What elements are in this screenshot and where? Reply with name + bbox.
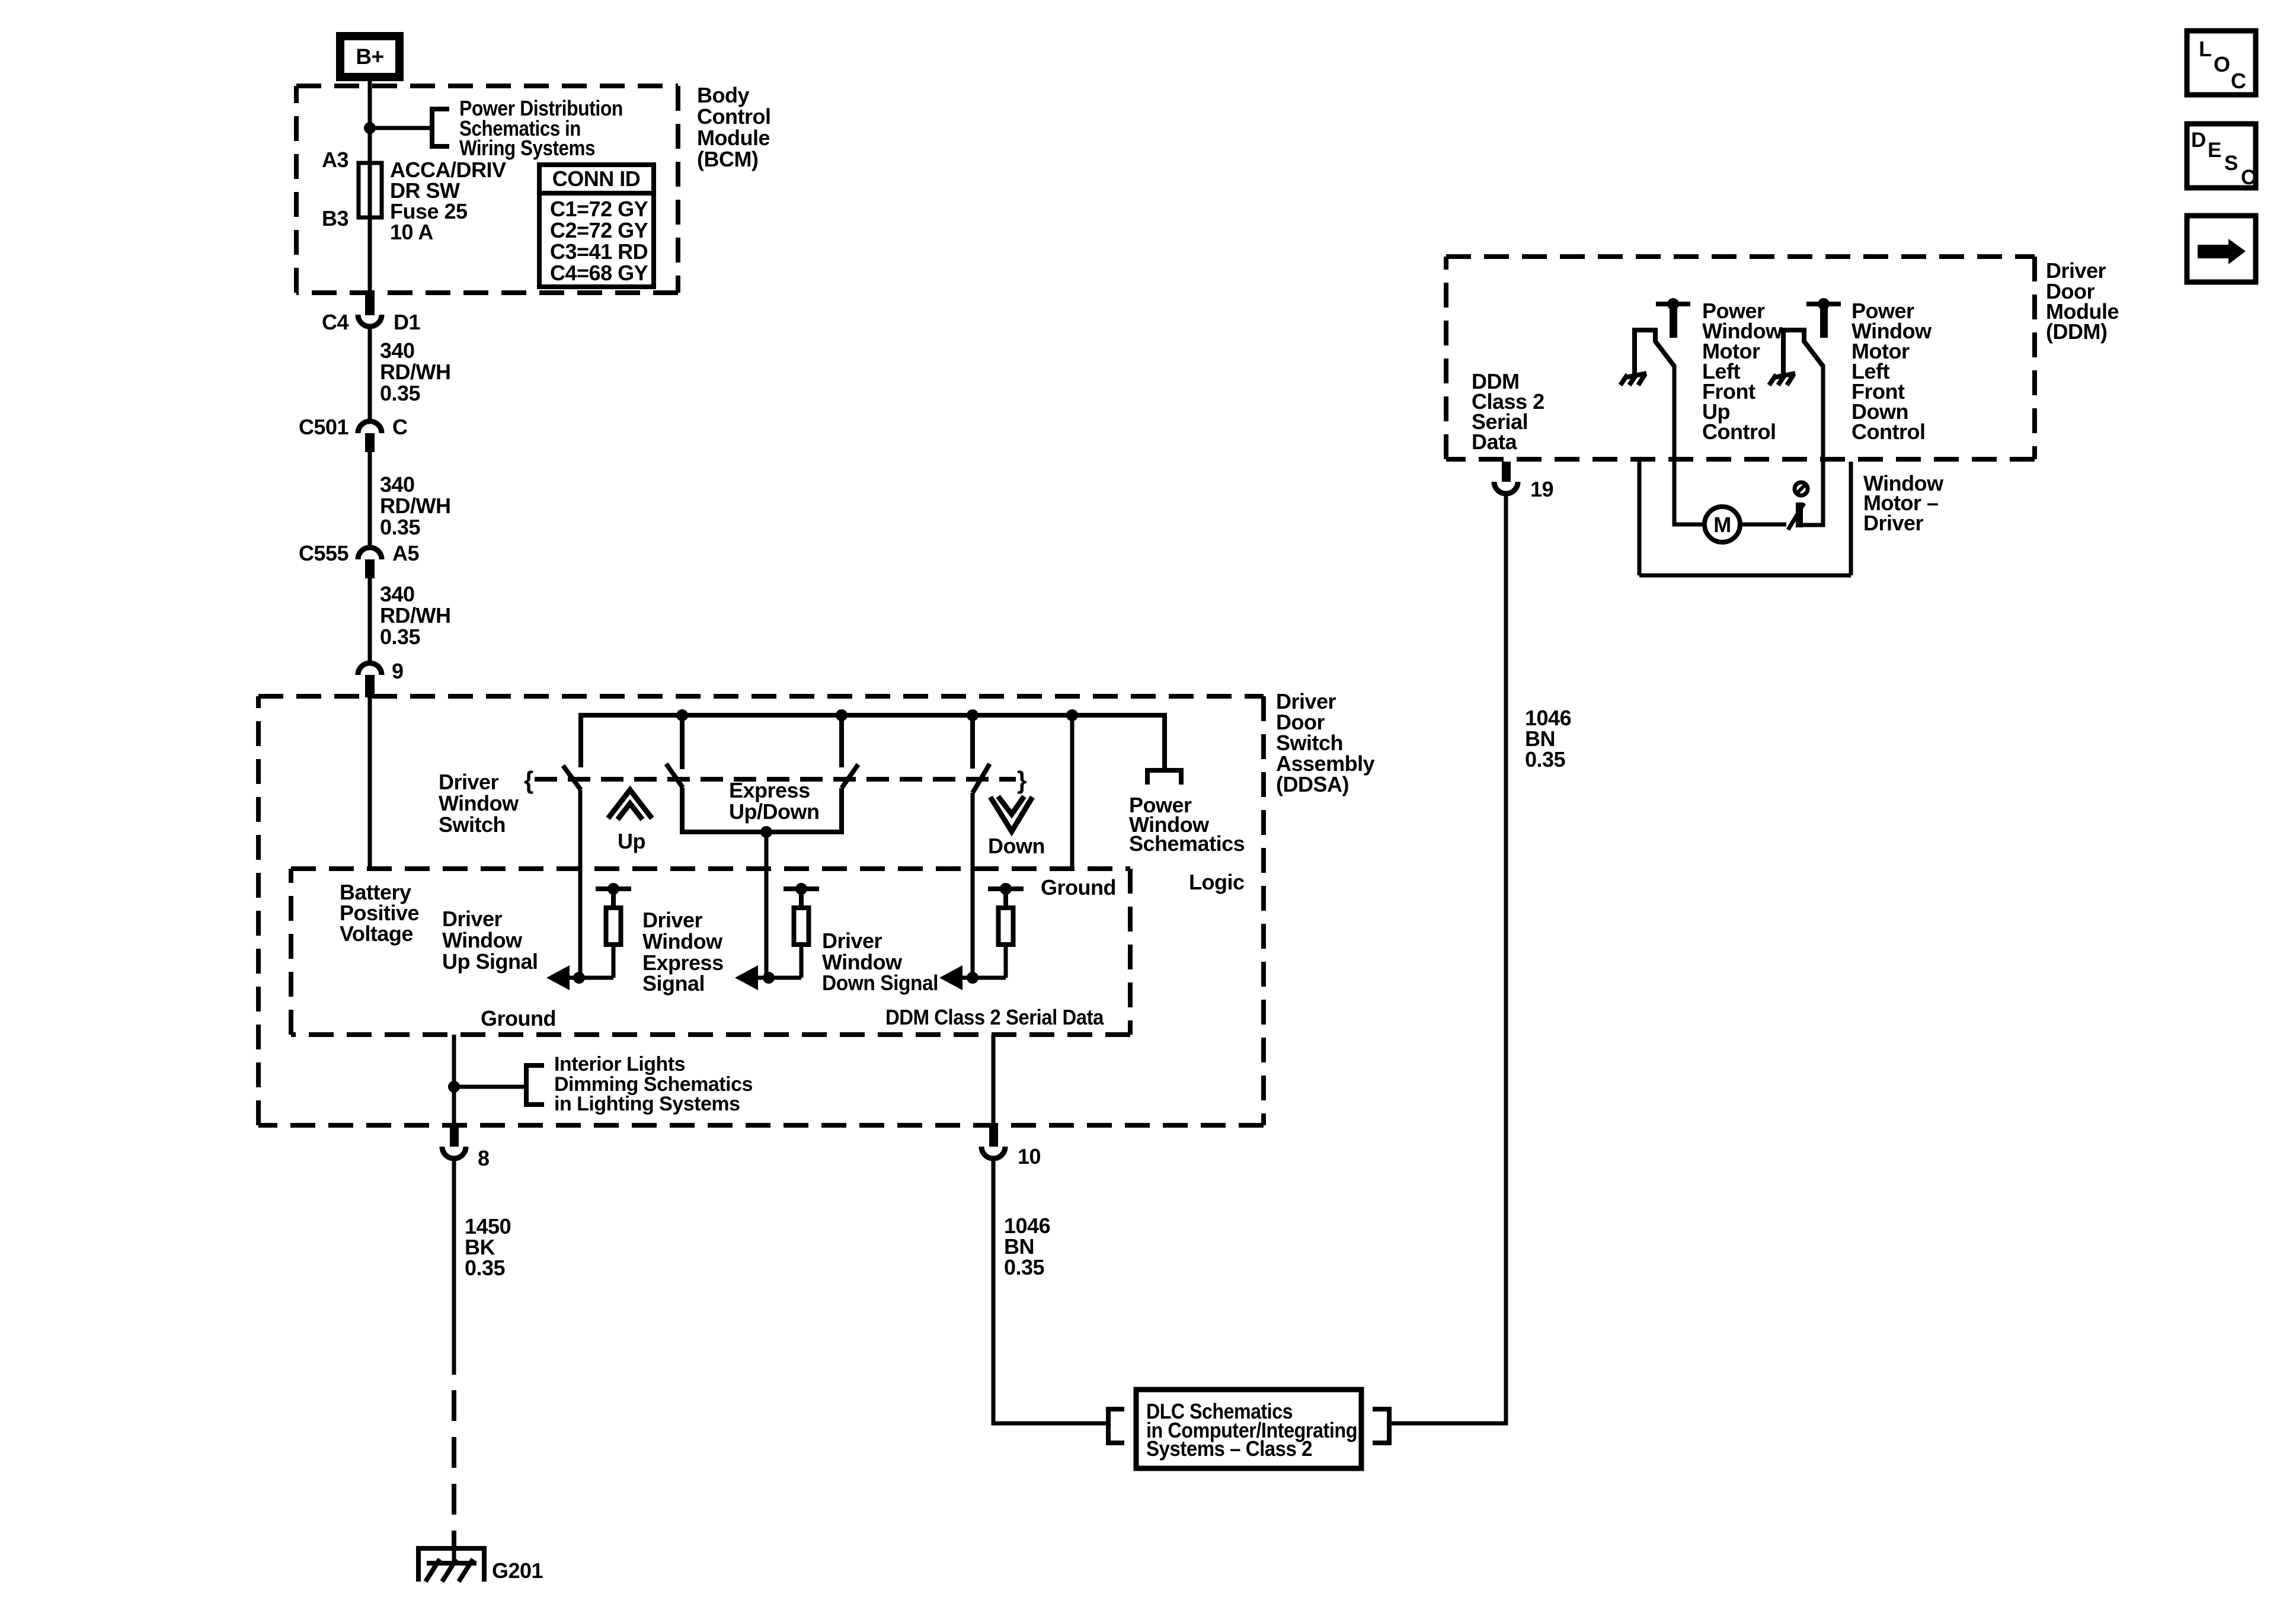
label: Power Distribution Schematics in Wiring Systems	[459, 96, 623, 160]
LOC icon box	[2187, 31, 2256, 95]
wire 340 RD/WH segment 2	[368, 452, 372, 545]
svg-text:G201: G201	[492, 1558, 543, 1583]
svg-text:Control: Control	[1702, 420, 1776, 444]
svg-text:(DDSA): (DDSA)	[1276, 772, 1349, 796]
node bus junction serial data	[1066, 709, 1078, 721]
arrowhead down signal	[939, 965, 962, 990]
wire branch to interior lights reference	[454, 1085, 525, 1089]
svg-text:Window: Window	[442, 928, 523, 952]
svg-text:0.35: 0.35	[380, 625, 421, 649]
connector pin 19 (DDM)	[1494, 462, 1553, 501]
mechanical linkage dashed line	[535, 777, 1016, 782]
connector pin 8 (DDSA ground output)	[442, 1126, 490, 1170]
node express signal junction	[763, 972, 775, 984]
connector C555 pin A5	[299, 541, 420, 578]
svg-text:Up: Up	[618, 829, 645, 853]
svg-text:C: C	[2231, 69, 2246, 93]
svg-text:C4=68 GY: C4=68 GY	[550, 261, 648, 285]
wire from R2 to express signal line	[800, 947, 804, 978]
arrowhead up signal	[546, 965, 570, 990]
wire label 340 RD/WH 0.35	[380, 338, 450, 405]
svg-text:Interior Lights: Interior Lights	[554, 1053, 685, 1076]
svg-text:0.35: 0.35	[1525, 747, 1566, 772]
svg-text:Up Signal: Up Signal	[442, 949, 538, 974]
svg-text:Up/Down: Up/Down	[729, 799, 819, 824]
svg-text:E: E	[2208, 139, 2221, 162]
svg-text:Signal: Signal	[642, 971, 705, 996]
svg-text:8: 8	[478, 1146, 490, 1170]
switch blade driver window up	[563, 766, 581, 790]
wire 1046 BN from pin 10 down and to DLC bracket	[993, 1160, 1106, 1423]
svg-text:Down: Down	[988, 834, 1045, 858]
up chevron symbol	[608, 790, 652, 820]
label: Express Up/Down	[729, 778, 819, 824]
svg-text:0.35: 0.35	[380, 381, 421, 405]
label: Interior Lights Dimming Schematics in Lighting Systems	[554, 1053, 753, 1115]
svg-text:0.35: 0.35	[465, 1256, 506, 1280]
wire express left drop	[680, 715, 685, 769]
connector C501 pin C	[299, 415, 408, 452]
svg-text:C2=72 GY: C2=72 GY	[550, 218, 648, 242]
svg-text:Logic: Logic	[1189, 870, 1245, 894]
wire from B+ down to fuse A3	[368, 81, 372, 164]
node up signal junction	[573, 972, 585, 984]
svg-text:M: M	[1713, 513, 1731, 537]
B+ battery positive terminal box	[340, 36, 399, 77]
down control contact crossbar	[1806, 298, 1841, 338]
motor loop bottom wire	[1639, 574, 1851, 578]
node junction on B+ feed	[364, 122, 376, 134]
supply bus wire across switch tops	[581, 715, 1165, 770]
svg-text:Ground: Ground	[481, 1006, 556, 1030]
fuse value label	[390, 158, 506, 244]
svg-text:Driver: Driver	[1863, 511, 1924, 535]
supply crossbar T for up signal resistor	[596, 883, 631, 907]
svg-text:{: {	[524, 766, 533, 794]
svg-text:A3: A3	[322, 148, 348, 172]
connector pin 9 into DDSA	[358, 659, 404, 697]
svg-text:0.35: 0.35	[1004, 1255, 1045, 1279]
svg-text:Voltage: Voltage	[340, 921, 413, 946]
svg-text:B+: B+	[356, 44, 383, 69]
svg-text:D: D	[2191, 129, 2206, 152]
wire from fuse B3 to BCM edge	[368, 217, 372, 295]
switch blade driver window down	[973, 764, 990, 793]
label: Driver Door Module (DDM)	[2046, 258, 2119, 344]
svg-text:Ground: Ground	[1041, 875, 1116, 900]
DDSA inner interface dashed box	[291, 869, 1130, 1035]
wire branch to power distribution reference	[370, 126, 432, 130]
svg-text:C: C	[392, 415, 408, 439]
svg-text:Wiring Systems: Wiring Systems	[459, 136, 595, 160]
DDSA module dashed box (Driver Door Switch Assembly)	[258, 696, 1264, 1125]
svg-text:9: 9	[392, 659, 404, 683]
node bus junction express left	[676, 709, 688, 721]
ground symbol (down relay NC)	[1769, 373, 1795, 385]
label: Battery Positive Voltage	[340, 880, 419, 946]
svg-text:10 A: 10 A	[390, 220, 433, 244]
svg-text:DDM Class 2 Serial Data: DDM Class 2 Serial Data	[885, 1005, 1104, 1029]
reference bracket (interior lights dimming)	[526, 1065, 544, 1105]
wire motor to thermal switch	[1742, 523, 1786, 527]
svg-text:Schematics: Schematics	[1129, 831, 1245, 856]
ground G201 symbol	[418, 1548, 484, 1582]
svg-text:C555: C555	[299, 541, 349, 565]
connector pin 10 (DDSA serial data output)	[981, 1126, 1041, 1169]
motor M (window motor driver)	[1705, 507, 1740, 542]
svg-text:Window: Window	[642, 929, 723, 953]
svg-text:340: 340	[380, 582, 415, 606]
wire from R3 to down signal line	[1004, 947, 1008, 978]
wire from R1 to up signal line	[612, 947, 616, 978]
down relay blade and elbow	[1783, 330, 1823, 375]
wire 1450 BK dashed continuation	[452, 1390, 456, 1549]
svg-text:Driver: Driver	[442, 907, 503, 931]
svg-text:Driver: Driver	[642, 908, 703, 932]
motor loop right leg	[1849, 462, 1853, 575]
svg-text:Window: Window	[439, 791, 519, 815]
wire 340 RD/WH segment 3	[368, 578, 372, 661]
ground symbol (up relay NC)	[1620, 373, 1646, 385]
label: Driver Window Down Signal	[822, 929, 938, 995]
svg-text:RD/WH: RD/WH	[380, 603, 450, 628]
svg-text:Down Signal: Down Signal	[822, 971, 938, 995]
svg-text:Module: Module	[697, 126, 770, 150]
motor loop left leg	[1638, 462, 1642, 575]
svg-text:C4: C4	[322, 310, 348, 334]
wire below up switch	[578, 790, 583, 978]
arrowhead express signal	[735, 965, 758, 990]
ground wire from inner box to DDSA edge	[452, 1035, 456, 1126]
svg-text:Control: Control	[697, 104, 770, 129]
svg-text:340: 340	[380, 472, 415, 497]
label: Driver Window Up Signal	[442, 907, 538, 974]
up control contact crossbar	[1656, 298, 1690, 338]
label: Driver Door Switch Assembly (DDSA)	[1276, 689, 1375, 796]
wire 1450 BK solid segment	[452, 1160, 456, 1375]
svg-text:C: C	[2241, 166, 2256, 189]
DDM module dashed box (Driver Door Module)	[1446, 257, 2035, 459]
svg-text:10: 10	[1018, 1144, 1041, 1169]
label: DDM Class 2 Serial Data	[1472, 369, 1544, 454]
resistor R2 (express signal pull)	[794, 908, 809, 945]
node bus junction express right	[836, 709, 848, 721]
fuse 25 (ACCA/DRIV DR SW, 10 A)	[359, 163, 382, 217]
wire below down switch	[971, 793, 975, 978]
svg-text:RD/WH: RD/WH	[380, 360, 450, 384]
thermal protector symbol (circle slash)	[1795, 482, 1808, 495]
express switch frame wires	[682, 788, 842, 832]
svg-text:Express: Express	[729, 778, 810, 802]
label: Driver Window Express Signal	[642, 908, 724, 996]
reference bracket left of DLC box	[1108, 1409, 1124, 1443]
svg-text:19: 19	[1530, 477, 1553, 501]
reference bracket (power distribution schematics)	[432, 109, 449, 146]
wire 340 RD/WH segment 1	[368, 328, 372, 419]
svg-text:S: S	[2224, 152, 2238, 175]
resistor R1 (up signal pull)	[606, 908, 621, 945]
express signal line with arrow	[756, 976, 801, 980]
svg-text:Data: Data	[1472, 430, 1518, 454]
DESC icon box	[2187, 124, 2256, 189]
svg-text:Systems – Class 2: Systems – Class 2	[1146, 1436, 1312, 1461]
wire label 340 RD/WH 0.35	[380, 582, 450, 649]
svg-text:340: 340	[380, 338, 415, 363]
thermal protector switch blade	[1788, 502, 1804, 530]
svg-text:Driver: Driver	[439, 770, 499, 794]
svg-text:O: O	[2214, 52, 2230, 76]
svg-text:in Lighting Systems: in Lighting Systems	[554, 1093, 740, 1115]
wire down switch drop	[970, 715, 975, 769]
supply crossbar T for down signal resistor	[988, 883, 1024, 907]
power window logic bracket	[1147, 770, 1181, 785]
wire serial data drop to logic	[1070, 715, 1075, 869]
svg-text:A5: A5	[392, 541, 419, 565]
BCM module dashed box (Body Control Module)	[296, 86, 678, 293]
label: Window Motor - Driver	[1863, 471, 1944, 535]
svg-text:0.35: 0.35	[380, 515, 421, 539]
svg-text:C501: C501	[299, 415, 349, 439]
connector C4 pin D1 (BCM harness connector)	[322, 294, 421, 334]
label: Driver Window Switch	[439, 770, 519, 837]
wire motor left feed	[1674, 364, 1702, 524]
svg-text:}: }	[1017, 766, 1027, 794]
up relay blade and elbow	[1635, 330, 1674, 375]
svg-text:Switch: Switch	[439, 812, 506, 837]
svg-text:Driver: Driver	[822, 929, 882, 953]
supply crossbar T for express signal resistor	[784, 883, 819, 907]
svg-text:C1=72 GY: C1=72 GY	[550, 197, 648, 221]
DLC Schematics reference box	[1136, 1390, 1361, 1468]
svg-text:RD/WH: RD/WH	[380, 494, 450, 518]
forward arrow icon box	[2187, 216, 2256, 282]
svg-text:(DDM): (DDM)	[2046, 319, 2107, 344]
svg-text:L: L	[2199, 37, 2212, 61]
node express output junction	[760, 826, 772, 838]
up signal line with arrow	[568, 976, 613, 980]
wire express right drop	[839, 715, 844, 767]
reference bracket right of DLC box	[1373, 1409, 1389, 1443]
wire 1046 BN from DLC to DDM pin 19	[1389, 496, 1506, 1423]
node down signal junction	[967, 972, 978, 984]
svg-text:(BCM): (BCM)	[697, 147, 758, 171]
wire label 340 RD/WH 0.35	[380, 472, 450, 539]
wire label 1046 BN 0.35	[1004, 1214, 1050, 1279]
switch blade express right	[842, 764, 858, 788]
svg-text:C3=41 RD: C3=41 RD	[550, 239, 648, 264]
down signal line with arrow	[961, 976, 1006, 980]
svg-text:B3: B3	[322, 206, 348, 231]
down chevron symbol	[990, 796, 1032, 831]
CONN ID table	[539, 165, 654, 287]
node ground branch junction	[448, 1081, 460, 1093]
node bus junction down switch	[967, 709, 978, 721]
wire label 1046 BN 0.35 (right)	[1525, 706, 1571, 772]
wire label 1450 BK 0.35	[465, 1214, 511, 1280]
svg-text:CONN ID: CONN ID	[552, 167, 641, 191]
label: Power Window Motor Left Front Down Control	[1851, 299, 1932, 444]
resistor R3 (down signal pull)	[999, 908, 1013, 945]
serial data wire from inner box to DDSA edge	[992, 1035, 996, 1126]
label: Body Control Module (BCM)	[697, 83, 770, 171]
wire battery feed inside DDSA	[368, 697, 372, 869]
svg-text:D1: D1	[394, 310, 420, 334]
svg-text:Control: Control	[1851, 420, 1925, 444]
wire express signal drop	[765, 832, 769, 978]
wire motor right feed	[1801, 364, 1823, 525]
switch blade express left	[666, 764, 683, 788]
svg-text:Body: Body	[697, 83, 749, 107]
label: Power Window Schematics Logic	[1129, 793, 1245, 894]
label: Power Window Motor Left Front Up Control	[1702, 299, 1783, 444]
